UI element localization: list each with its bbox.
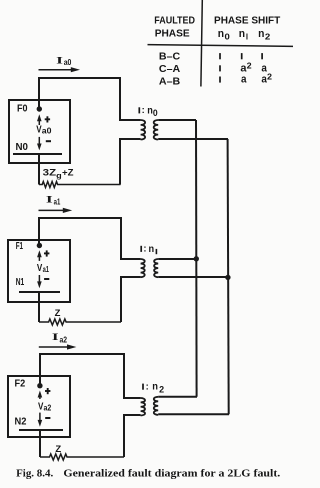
svg-text:FAULTED: FAULTED bbox=[154, 15, 195, 26]
svg-text:F0: F0 bbox=[17, 103, 28, 115]
N0 node bar bbox=[13, 153, 62, 155]
svg-text:Generalized fault diagram for: Generalized fault diagram for a 2LG faul… bbox=[63, 468, 280, 479]
svg-text:2: 2 bbox=[247, 60, 252, 70]
wire T0 secondary bottom lead bbox=[158, 138, 228, 140]
svg-text:Z: Z bbox=[55, 444, 61, 455]
transformer T0 secondary coil bbox=[154, 120, 159, 140]
wire T1 secondary top lead bbox=[158, 258, 196, 260]
transformer T1 primary coil bbox=[141, 259, 145, 277]
positive-sequence network box F1/N1 bbox=[8, 240, 70, 302]
resistor 3Zg+Z zigzag bbox=[39, 182, 121, 188]
table header rule bbox=[148, 45, 294, 47]
svg-text:n: n bbox=[239, 28, 245, 40]
svg-text:N0: N0 bbox=[16, 141, 29, 153]
svg-text:A–B: A–B bbox=[159, 76, 181, 88]
voltage arrow down to N2 bbox=[39, 413, 41, 422]
junction dot T1 bottom / right bus bbox=[225, 275, 230, 280]
right secondary bus wire bbox=[228, 139, 229, 414]
label 1:n1 bbox=[140, 246, 142, 252]
wire top horizontal run bbox=[38, 77, 121, 79]
svg-text:B–C: B–C bbox=[159, 51, 181, 63]
node F1 junction dot bbox=[37, 243, 42, 248]
wire F1 up through box to top bbox=[38, 218, 40, 246]
resistor Z zigzag bbox=[40, 454, 124, 460]
svg-text:n: n bbox=[258, 28, 264, 40]
svg-text:a2: a2 bbox=[44, 402, 52, 412]
label + bbox=[45, 390, 50, 392]
svg-text:Z: Z bbox=[55, 308, 61, 319]
node F2 junction dot bbox=[37, 383, 42, 388]
cell 1 (row B-C, n0) bbox=[219, 53, 221, 59]
cell 1 (row B-C, n1) bbox=[241, 53, 243, 59]
zero-sequence network box F0/N0 bbox=[9, 100, 70, 163]
svg-text:Fig. 8.4.: Fig. 8.4. bbox=[16, 468, 53, 479]
svg-text:a: a bbox=[241, 74, 247, 86]
wire top horizontal run bbox=[38, 217, 122, 219]
svg-text:a0: a0 bbox=[64, 57, 72, 67]
label + bbox=[45, 118, 50, 120]
wire T0 primary bottom to resistor bbox=[120, 139, 141, 185]
wire T2 primary bottom to resistor bbox=[124, 415, 141, 457]
wire T2 secondary top lead bbox=[158, 396, 197, 398]
transformer T0 primary coil bbox=[141, 120, 146, 140]
label minus bbox=[46, 140, 51, 142]
svg-text:2: 2 bbox=[265, 32, 271, 42]
cell 1 (row B-C, n2) bbox=[261, 53, 263, 59]
svg-text:2: 2 bbox=[159, 384, 164, 394]
current arrow Ia2 bbox=[39, 346, 68, 348]
svg-text:a1: a1 bbox=[43, 264, 50, 274]
svg-text:N1: N1 bbox=[16, 276, 25, 288]
wire T2 secondary bottom lead bbox=[158, 413, 229, 415]
svg-text:n: n bbox=[152, 382, 158, 393]
wire T1 primary bottom to resistor bbox=[121, 277, 141, 322]
svg-text:C–A: C–A bbox=[159, 63, 181, 75]
svg-text:I: I bbox=[52, 332, 59, 343]
voltage arrow up (+) bbox=[39, 395, 41, 399]
wire F0 up through box to top bbox=[38, 78, 40, 109]
label 1:n2 bbox=[142, 384, 144, 390]
label 1:n0 bbox=[138, 107, 140, 113]
cell 1 (row C-A, n0) bbox=[219, 65, 221, 71]
svg-text:PHASE SHIFT: PHASE SHIFT bbox=[214, 15, 281, 26]
svg-text:PHASE: PHASE bbox=[155, 29, 190, 40]
label minus bbox=[45, 417, 50, 419]
svg-text:n: n bbox=[149, 244, 155, 255]
svg-text:I: I bbox=[56, 56, 63, 67]
svg-text:a0: a0 bbox=[42, 125, 52, 135]
current arrow Ia0 bbox=[39, 69, 72, 71]
transformer T2 secondary coil bbox=[154, 397, 158, 415]
voltage arrow up (+) bbox=[38, 119, 40, 125]
left secondary bus wire bbox=[195, 120, 198, 397]
negative-sequence network box F2/N2 bbox=[8, 376, 70, 437]
wire top horizontal run bbox=[39, 353, 125, 355]
wire N1 down through box bottom bbox=[38, 292, 40, 322]
svg-text:0: 0 bbox=[153, 108, 158, 118]
voltage arrow up (+) bbox=[38, 255, 40, 261]
svg-text:F1: F1 bbox=[16, 240, 23, 252]
current arrow Ia1 bbox=[39, 209, 64, 211]
N1 node bar bbox=[19, 291, 60, 293]
wire down to T1 primary top bbox=[121, 218, 141, 259]
wire T0 secondary top lead bbox=[158, 119, 196, 121]
svg-text:I: I bbox=[46, 195, 53, 206]
svg-text:a2: a2 bbox=[60, 335, 68, 345]
wire down to T2 primary top bbox=[124, 354, 141, 398]
label + bbox=[44, 252, 49, 254]
svg-text:2: 2 bbox=[267, 72, 272, 82]
wire N2 down through box bottom bbox=[39, 430, 41, 457]
wire down to T0 primary top bbox=[120, 78, 141, 120]
svg-text::: : bbox=[143, 243, 146, 254]
N2 node bar bbox=[19, 429, 63, 431]
wire N0 down through box bottom bbox=[38, 154, 40, 185]
resistor Z zigzag bbox=[39, 319, 121, 325]
node F0 junction dot bbox=[37, 106, 42, 111]
voltage arrow down to N0 bbox=[38, 137, 40, 145]
svg-text:3Zg: 3Zg bbox=[43, 168, 62, 180]
svg-text:N2: N2 bbox=[15, 415, 27, 427]
transformer T2 primary coil bbox=[141, 398, 145, 416]
svg-text::: : bbox=[142, 104, 145, 115]
junction dot T1 top / left bus bbox=[194, 256, 199, 261]
label minus bbox=[44, 278, 49, 280]
voltage arrow down to N1 bbox=[38, 275, 40, 283]
svg-text::: : bbox=[146, 381, 149, 392]
svg-text:F2: F2 bbox=[15, 377, 26, 389]
svg-text:V: V bbox=[37, 262, 42, 274]
cell 1 (row A-B, n0) bbox=[219, 77, 221, 83]
svg-text:0: 0 bbox=[225, 32, 231, 42]
wire T1 secondary bottom lead bbox=[158, 276, 228, 278]
svg-text:+Z: +Z bbox=[62, 168, 74, 179]
transformer T1 secondary coil bbox=[154, 259, 158, 277]
svg-text:l: l bbox=[246, 32, 248, 42]
svg-text:n: n bbox=[218, 28, 224, 40]
svg-text:a1: a1 bbox=[54, 196, 61, 206]
table divider line bbox=[201, 0, 202, 87]
wire F2 up through box to top bbox=[39, 354, 41, 386]
